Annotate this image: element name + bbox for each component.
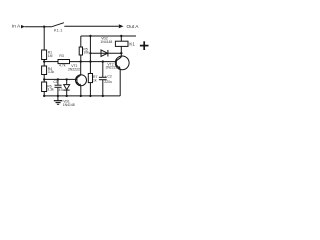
capacitor C1 plate bottom bbox=[55, 86, 62, 88]
svg-text:10k: 10k bbox=[83, 51, 89, 55]
wire R5 to collector rail bbox=[80, 55, 82, 62]
transistor VT2 emitter arrow bbox=[118, 66, 121, 69]
diode VD2 cathode bar bbox=[107, 50, 109, 57]
svg-text:C1: C1 bbox=[53, 80, 57, 84]
svg-text:+ C2: + C2 bbox=[105, 75, 112, 79]
switch K1.1 blade bbox=[52, 23, 64, 27]
junction dot base rail at VD1 bbox=[66, 78, 68, 80]
capacitor C1 lower wire bbox=[57, 88, 59, 96]
junction dot diode tee bbox=[89, 52, 91, 54]
wire switch to output bbox=[64, 25, 119, 27]
transistor VT2 collector wire bbox=[120, 53, 122, 57]
relay K1 coil box bbox=[115, 41, 128, 46]
wire R4 to node C bbox=[43, 75, 45, 83]
wire relay bottom pin bbox=[120, 46, 122, 53]
transistor VT1 emitter diagonal bbox=[77, 82, 81, 86]
junction dot rail at R7 bbox=[89, 95, 91, 97]
junction dot relay bottom bbox=[120, 52, 122, 54]
svg-text:4.7k: 4.7k bbox=[59, 64, 66, 68]
ground rail bbox=[44, 95, 121, 97]
wire R1 to node B bbox=[43, 60, 45, 67]
svg-text:Out A: Out A bbox=[127, 24, 140, 30]
wire relay top pin bbox=[120, 36, 122, 41]
svg-text:1N4148: 1N4148 bbox=[100, 40, 112, 44]
node In A arrow bbox=[21, 25, 25, 29]
junction dot rail at C1 bbox=[57, 95, 59, 97]
svg-text:R3: R3 bbox=[59, 54, 63, 58]
transistor VT1 circle bbox=[76, 75, 87, 86]
svg-text:In A: In A bbox=[12, 24, 21, 30]
resistor R1 bbox=[42, 50, 47, 60]
resistor R7 bbox=[88, 74, 92, 83]
svg-text:2N2222: 2N2222 bbox=[68, 67, 80, 71]
diode VD1 triangle bbox=[64, 85, 70, 90]
wire R6 to ground rail bbox=[43, 92, 45, 96]
transistor VT2 emitter wire bbox=[119, 69, 121, 96]
node B junction dot bbox=[43, 60, 45, 62]
diode VD2 wire bbox=[90, 52, 121, 54]
capacitor C2 lower wire bbox=[102, 80, 104, 96]
capacitor C1 feed wire bbox=[57, 79, 59, 85]
svg-text:47u: 47u bbox=[59, 88, 65, 92]
junction dot base rail at C1 bbox=[57, 78, 59, 80]
ground symbol bar 1 bbox=[54, 100, 63, 102]
junction dot collector rail at R7 column bbox=[89, 60, 91, 62]
capacitor C2 feed wire bbox=[102, 62, 104, 77]
transistor VT2 collector diagonal bbox=[116, 57, 121, 61]
capacitor C1 plate top bbox=[55, 84, 62, 86]
diode VD1 cathode bar bbox=[64, 89, 70, 91]
transistor VT1 base bar bbox=[76, 77, 78, 84]
transistor VT1 emitter wire bbox=[80, 86, 82, 96]
node C junction dot bbox=[43, 78, 45, 80]
junction dot rail at VD1 bbox=[66, 95, 68, 97]
resistor R5 bbox=[79, 47, 82, 55]
svg-text:3.3k: 3.3k bbox=[47, 87, 54, 91]
diode VD1 bottom wire bbox=[66, 90, 68, 96]
junction dot supply at relay pin bbox=[120, 35, 122, 37]
wire input to junction bbox=[25, 26, 52, 28]
resistor R3 bbox=[58, 60, 70, 64]
transistor VT1 collector wire bbox=[80, 62, 82, 75]
transistor VT2 base bar bbox=[115, 59, 117, 66]
svg-text:2N2222: 2N2222 bbox=[106, 65, 118, 69]
transistor VT2 emitter diagonal bbox=[116, 65, 120, 69]
svg-text:1k: 1k bbox=[93, 78, 97, 82]
capacitor C2 plate top bbox=[99, 76, 107, 78]
ground symbol bar 2 bbox=[56, 102, 61, 104]
junction dot rail at VT1 emitter bbox=[80, 95, 82, 97]
svg-text:1M: 1M bbox=[48, 54, 53, 58]
wire node B to R3 bbox=[44, 61, 58, 63]
resistor R6 bbox=[42, 82, 47, 92]
wire R5 up to supply rail bbox=[80, 36, 82, 47]
junction dot rail at C2 bbox=[102, 95, 104, 97]
wire R7 to ground rail bbox=[89, 83, 91, 96]
wire R7 column vertical bbox=[89, 36, 91, 74]
wire R3 to VT2 base rail bbox=[70, 61, 117, 63]
junction dot collector rail at C2 bbox=[102, 60, 104, 62]
junction dot supply at R7 column bbox=[89, 35, 91, 37]
svg-text:K1.1: K1.1 bbox=[54, 29, 63, 33]
node Out A arrow bbox=[119, 24, 124, 28]
capacitor C2 plate bottom bbox=[99, 79, 107, 81]
svg-text:1N4148: 1N4148 bbox=[63, 103, 75, 107]
resistor R4 bbox=[42, 66, 47, 75]
power terminal plus bbox=[140, 41, 149, 50]
svg-text:K1: K1 bbox=[129, 42, 135, 47]
svg-text:220u: 220u bbox=[104, 80, 112, 84]
supply rail wire bbox=[81, 35, 136, 37]
node A junction dot bbox=[43, 26, 45, 28]
diode VD1 top wire bbox=[66, 79, 68, 84]
wire junction down to R1 bbox=[43, 27, 45, 50]
diode VD2 triangle bbox=[101, 50, 108, 57]
junction dot rail at R6 bbox=[43, 95, 45, 97]
transistor VT2 circle bbox=[115, 56, 129, 70]
transistor VT1 emitter arrow bbox=[79, 84, 81, 87]
transistor VT1 collector diagonal bbox=[77, 75, 81, 78]
wire node C to VT1 base bbox=[44, 78, 77, 80]
junction dot collector rail VT1 bbox=[80, 60, 82, 62]
ground symbol bar 3 bbox=[57, 103, 59, 105]
svg-text:3.3k: 3.3k bbox=[48, 70, 55, 74]
ground symbol stub bbox=[57, 96, 59, 101]
